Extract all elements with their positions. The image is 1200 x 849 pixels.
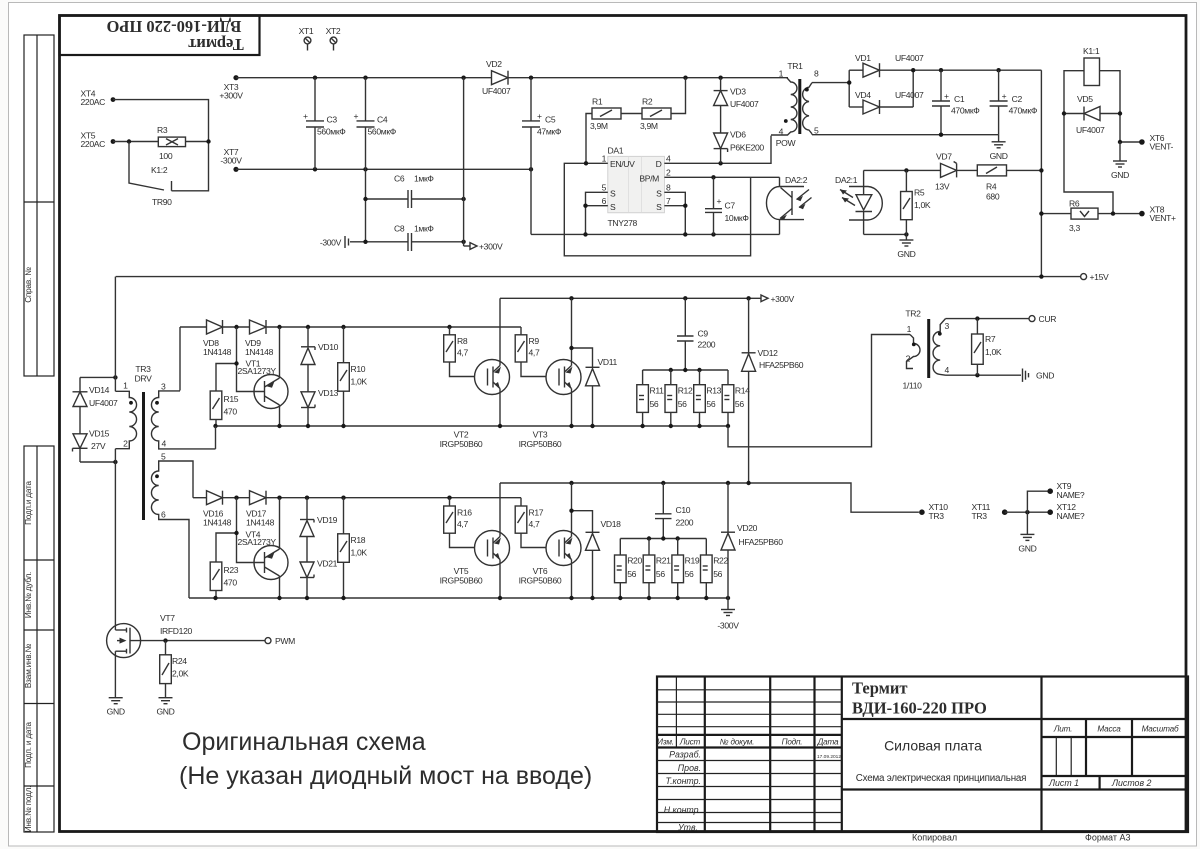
svg-text:470мкФ: 470мкФ: [951, 106, 980, 116]
resistor R8: [444, 327, 475, 377]
terminal XT9: [1027, 481, 1085, 512]
svg-text:Лит.: Лит.: [1053, 725, 1072, 734]
svg-text:R11: R11: [650, 386, 665, 396]
wire +300V power rail: [500, 294, 794, 304]
resistor R7: [972, 319, 1002, 376]
wire EN/UV net: [564, 163, 750, 256]
terminal XT7: [220, 147, 242, 172]
left table thin rows above header: [657, 689, 842, 691]
svg-text:220AC: 220AC: [81, 139, 106, 149]
resistor R14: [722, 370, 750, 426]
svg-text:ВДИ-160-220 ПРО: ВДИ-160-220 ПРО: [852, 699, 987, 718]
wire mid rail lower: [500, 483, 919, 512]
svg-text:P6KE200: P6KE200: [730, 143, 764, 153]
svg-text:560мкФ: 560мкФ: [317, 127, 346, 137]
diode VD9: [245, 320, 274, 357]
svg-text:UF4007: UF4007: [482, 86, 511, 96]
svg-text:27V: 27V: [91, 441, 106, 451]
wire snubber top bus lower: [620, 538, 706, 540]
wire R1-R2 link: [621, 113, 642, 115]
zener VD15 27V: [73, 429, 110, 463]
svg-text:1,0K: 1,0K: [985, 347, 1002, 357]
svg-text:Силовая плата: Силовая плата: [884, 738, 982, 754]
svg-text:Утв.: Утв.: [677, 823, 698, 833]
svg-text:Подп. и дата: Подп. и дата: [24, 721, 33, 767]
svg-text:C2: C2: [1012, 94, 1023, 104]
svg-text:Подп.и дата: Подп.и дата: [24, 480, 33, 524]
svg-text:+: +: [537, 111, 542, 121]
ground under R24: [156, 698, 174, 717]
diode VD12: [742, 298, 804, 483]
title block: [657, 677, 1188, 843]
svg-text:Инв.№ подл.: Инв.№ подл.: [24, 786, 33, 833]
capacitor C3: [303, 78, 346, 170]
svg-text:6: 6: [161, 510, 166, 520]
zener VD7 13V: [935, 152, 977, 192]
svg-text:Оригинальная схема: Оригинальная схема: [182, 728, 426, 756]
transistor VT1 2SA1273Y: [238, 327, 289, 426]
svg-text:3: 3: [945, 321, 950, 331]
middle panel: [842, 718, 1188, 720]
terminal XT3: [219, 75, 243, 100]
svg-text:DA1: DA1: [608, 146, 624, 156]
svg-text:2: 2: [666, 168, 671, 178]
IC DA1 TNY278: [602, 146, 671, 229]
svg-text:Разраб.: Разраб.: [669, 750, 701, 760]
svg-text:UF4007: UF4007: [895, 90, 924, 100]
wire -300V rail: [236, 168, 531, 170]
ground under VT7: [107, 698, 125, 717]
svg-text:EN/UV: EN/UV: [610, 159, 635, 169]
svg-text:VT6: VT6: [533, 566, 548, 576]
node dots lower bus: [498, 596, 502, 600]
svg-text:1: 1: [907, 324, 912, 334]
IGBT VT2: [440, 298, 510, 449]
svg-text:XT2: XT2: [326, 26, 341, 36]
optocoupler DA2:2: [766, 175, 811, 234]
svg-text:Н.контр.: Н.контр.: [664, 805, 701, 815]
svg-text:CUR: CUR: [1039, 314, 1057, 324]
svg-text:4: 4: [945, 365, 950, 375]
left table verticals: [704, 677, 706, 833]
svg-text:R17: R17: [529, 508, 544, 518]
svg-text:1мкФ: 1мкФ: [414, 174, 434, 184]
wire CUR line: [946, 318, 1030, 320]
svg-text:1N4148: 1N4148: [203, 518, 232, 528]
transformer TR2: [902, 309, 949, 391]
svg-text:8: 8: [666, 183, 671, 193]
wire upper emitter bus: [216, 425, 729, 427]
wire DA2:1 top to VD7 line: [864, 169, 941, 171]
svg-text:4,7: 4,7: [529, 348, 540, 358]
svg-text:S: S: [610, 189, 616, 199]
right panel: [1085, 719, 1087, 776]
svg-text:VD20: VD20: [737, 523, 758, 533]
svg-text:4: 4: [162, 439, 167, 449]
svg-text:+15V: +15V: [1090, 272, 1110, 282]
resistor R11: [637, 370, 664, 426]
svg-text:8: 8: [814, 69, 819, 79]
svg-text:C3: C3: [327, 115, 338, 125]
svg-text:R18: R18: [351, 535, 366, 545]
diode VD20: [721, 483, 783, 598]
terminal XT5: [81, 131, 116, 150]
terminal XT10: [919, 502, 948, 521]
svg-text:TR90: TR90: [152, 197, 172, 207]
svg-text:C8: C8: [394, 224, 405, 234]
svg-text:PWM: PWM: [275, 636, 295, 646]
svg-text:6: 6: [602, 196, 607, 206]
capacitor C9: [677, 298, 716, 370]
svg-text:C6: C6: [394, 174, 405, 184]
svg-text:R15: R15: [224, 394, 239, 404]
svg-text:+: +: [717, 196, 722, 206]
svg-text:R14: R14: [735, 386, 750, 396]
svg-text:VENT-: VENT-: [1150, 142, 1174, 152]
wire +15 feed down left upper: [114, 277, 116, 392]
terminal XT8: [1139, 205, 1176, 224]
svg-text:HFA25PB60: HFA25PB60: [739, 537, 784, 547]
svg-text:1N4148: 1N4148: [203, 347, 232, 357]
ground under XT6 branch: [1111, 142, 1129, 180]
terminal XT1: [299, 26, 314, 51]
svg-text:UF4007: UF4007: [1076, 125, 1105, 135]
svg-text:56: 56: [650, 399, 659, 409]
node R3/K1 junction: [206, 139, 210, 143]
capacitor C6: [363, 174, 466, 209]
diode VD5: [1062, 94, 1122, 135]
node dots on rails: [313, 76, 317, 80]
wire DA2:1 bottom bus: [864, 233, 907, 235]
left margin strip lower: [24, 446, 54, 832]
rotated repeat title box top-left: [60, 16, 260, 56]
transformer TR1: [771, 61, 819, 148]
svg-text:VT5: VT5: [454, 566, 469, 576]
svg-text:GND: GND: [990, 151, 1008, 161]
svg-text:Копировал: Копировал: [912, 833, 957, 843]
wire XT11 to gnd node: [1005, 511, 1050, 513]
svg-text:470мкФ: 470мкФ: [1009, 106, 1038, 116]
svg-text:R23: R23: [224, 565, 239, 575]
wire S pins left: [586, 192, 608, 234]
svg-text:470: 470: [224, 407, 238, 417]
svg-text:D: D: [656, 159, 662, 169]
svg-text:VD3: VD3: [730, 87, 746, 97]
svg-text:C4: C4: [377, 115, 388, 125]
svg-text:Лист 1: Лист 1: [1048, 778, 1079, 788]
wire PWM: [163, 636, 295, 646]
IGBT VT6: [519, 483, 581, 598]
svg-text:2: 2: [123, 439, 128, 449]
wire BP/M to C7 and opto: [664, 176, 779, 178]
svg-text:3,3: 3,3: [1069, 223, 1080, 233]
svg-text:VD19: VD19: [317, 515, 338, 525]
resistor R19: [672, 539, 700, 599]
diode VD6 P6KE200: [714, 130, 765, 164]
svg-text:56: 56: [713, 569, 722, 579]
svg-text:VD4: VD4: [855, 90, 871, 100]
svg-text:3,9M: 3,9M: [640, 121, 658, 131]
resistor R6: [1039, 199, 1142, 234]
resistor R18: [338, 498, 368, 598]
svg-text:HFA25PB60: HFA25PB60: [759, 360, 804, 370]
svg-text:2,0K: 2,0K: [172, 669, 189, 679]
svg-text:R9: R9: [529, 336, 540, 346]
svg-text:S: S: [610, 202, 616, 212]
ground -300V under bus: [717, 598, 739, 631]
svg-text:1мкФ: 1мкФ: [414, 224, 434, 234]
svg-text:+: +: [944, 91, 949, 101]
svg-text:56: 56: [656, 569, 665, 579]
diode VD16: [203, 491, 232, 528]
svg-text:Пров.: Пров.: [678, 763, 701, 773]
left margin strip upper: [24, 35, 54, 376]
capacitor C1: [932, 70, 980, 137]
svg-text:VD13: VD13: [318, 388, 339, 398]
svg-text:IRGP50B60: IRGP50B60: [519, 439, 562, 449]
zener VD13: [301, 388, 339, 426]
resistor R3: [157, 125, 186, 161]
svg-text:№ докум.: № докум.: [720, 738, 754, 747]
svg-text:5: 5: [602, 183, 607, 193]
terminal XT6: [1118, 133, 1174, 152]
svg-text:+: +: [303, 111, 308, 121]
svg-text:TR3: TR3: [929, 511, 945, 521]
svg-text:R20: R20: [627, 556, 642, 566]
svg-text:VD15: VD15: [89, 429, 110, 439]
resistor R20: [615, 539, 643, 599]
wire gate drive lower net: [193, 497, 207, 499]
svg-text:56: 56: [685, 569, 694, 579]
svg-text:1: 1: [602, 154, 607, 164]
svg-text:R22: R22: [713, 556, 728, 566]
svg-text:VT2: VT2: [454, 430, 469, 440]
svg-text:VD11: VD11: [598, 357, 618, 367]
svg-text:VD5: VD5: [1077, 94, 1093, 104]
transformer TR3: [115, 364, 215, 598]
svg-text:R2: R2: [642, 97, 653, 107]
resistor R5: [901, 170, 931, 234]
wire TR2 pin4 line: [946, 374, 1022, 376]
svg-text:R21: R21: [656, 556, 671, 566]
svg-text:3,9M: 3,9M: [590, 121, 608, 131]
wire TR1 pin5 rail: [811, 133, 813, 136]
diode VD3: [714, 78, 759, 133]
svg-text:+: +: [354, 111, 359, 121]
svg-text:4,7: 4,7: [529, 519, 540, 529]
svg-text:4,7: 4,7: [457, 348, 468, 358]
wire TR3 pin2 down to VT7: [114, 449, 116, 630]
svg-text:VD10: VD10: [318, 342, 339, 352]
svg-text:+300V: +300V: [479, 242, 503, 252]
svg-text:100: 100: [159, 151, 173, 161]
wire VD14 top link: [80, 376, 115, 378]
svg-text:TR3: TR3: [972, 511, 988, 521]
IGBT VT5: [440, 483, 510, 598]
svg-text:R19: R19: [685, 556, 700, 566]
svg-text:Термит: Термит: [188, 35, 243, 54]
capacitor C4: [354, 78, 397, 242]
svg-text:VT7: VT7: [160, 613, 175, 623]
terminal XT12: [1047, 502, 1085, 521]
diode VD1: [849, 53, 924, 77]
svg-text:VENT+: VENT+: [1150, 213, 1177, 223]
resistor R16: [444, 498, 475, 548]
wire gate drive upper net: [179, 327, 181, 391]
resistor R4: [977, 165, 1043, 202]
svg-text:GND: GND: [1111, 170, 1129, 180]
svg-text:Лист: Лист: [679, 738, 701, 747]
svg-text:3: 3: [161, 382, 166, 392]
svg-text:Дата: Дата: [817, 738, 839, 747]
wire mid node to TR2: [728, 335, 910, 447]
capacitor C10: [655, 483, 694, 539]
resistor R17: [515, 498, 546, 548]
resistor R23: [210, 562, 239, 598]
svg-text:R8: R8: [457, 336, 468, 346]
svg-text:Масса: Масса: [1097, 725, 1121, 734]
resistor R2: [640, 97, 671, 132]
svg-text:56: 56: [706, 399, 715, 409]
svg-text:-300V: -300V: [717, 621, 739, 631]
svg-text:1/110: 1/110: [902, 381, 922, 391]
wire S pins right: [664, 192, 685, 234]
wire VD15 bottom link: [80, 461, 115, 463]
resistor R21: [643, 539, 671, 599]
svg-text:Схема электрическая принципиал: Схема электрическая принципиальная: [856, 773, 1027, 784]
wire VT4 base path: [237, 498, 265, 563]
svg-text:560мкФ: 560мкФ: [368, 127, 397, 137]
wire +15V rail: [116, 272, 1109, 282]
svg-text:56: 56: [678, 399, 687, 409]
terminal XT4: [81, 89, 116, 108]
svg-text:C9: C9: [698, 329, 709, 339]
svg-text:-300V: -300V: [220, 156, 242, 166]
svg-text:R24: R24: [172, 656, 187, 666]
wire pin4 riser: [215, 426, 217, 449]
svg-text:UF4007: UF4007: [730, 99, 759, 109]
wire R3 right: [186, 141, 209, 143]
svg-text:R16: R16: [457, 508, 472, 518]
svg-text:VD6: VD6: [730, 130, 746, 140]
svg-text:S: S: [656, 189, 662, 199]
svg-text:VD1: VD1: [855, 53, 871, 63]
svg-text:1,0K: 1,0K: [351, 548, 368, 558]
svg-text:Формат А3: Формат А3: [1085, 833, 1130, 843]
svg-text:5: 5: [161, 452, 166, 462]
svg-text:1: 1: [779, 69, 784, 79]
ground under R5: [897, 234, 915, 259]
capacitor C5: [522, 78, 562, 235]
svg-text:680: 680: [986, 192, 1000, 202]
svg-text:GND: GND: [1018, 544, 1036, 554]
svg-text:VD12: VD12: [758, 348, 779, 358]
mosfet VT7 IRFD120: [107, 613, 193, 698]
terminal XT11: [972, 502, 1008, 521]
resistor R10: [338, 327, 368, 426]
wire R1 left to EN: [586, 114, 592, 164]
svg-text:TR1: TR1: [787, 61, 803, 71]
wire snubber top bus upper: [643, 369, 728, 371]
resistor R15: [210, 391, 239, 426]
svg-text:C7: C7: [725, 201, 736, 211]
svg-text:S: S: [656, 202, 662, 212]
resistor R9: [515, 327, 546, 377]
svg-text:GND: GND: [156, 707, 174, 717]
svg-text:1: 1: [123, 381, 128, 391]
svg-text:Листов 2: Листов 2: [1111, 778, 1151, 788]
svg-text:C5: C5: [545, 115, 556, 125]
node dots upper bus right: [498, 424, 502, 428]
svg-text:Инв.№ дубл.: Инв.№ дубл.: [24, 572, 33, 618]
svg-text:-300V: -300V: [320, 238, 342, 248]
diode VD8: [203, 320, 232, 357]
svg-text:4: 4: [666, 154, 671, 164]
svg-text:56: 56: [627, 569, 636, 579]
svg-text:IRGP50B60: IRGP50B60: [440, 439, 483, 449]
svg-text:Масштаб: Масштаб: [1142, 725, 1179, 734]
ground under C2: [990, 135, 1008, 161]
diode VD14: [73, 377, 119, 433]
wire TR1 pin8 to rectifier: [812, 82, 849, 84]
diode VD17: [246, 491, 275, 528]
optocoupler DA2:1: [835, 170, 882, 234]
svg-text:IRGP50B60: IRGP50B60: [440, 576, 483, 586]
svg-text:2200: 2200: [676, 518, 694, 528]
svg-text:ВДИ-160-220 ПРО: ВДИ-160-220 ПРО: [106, 17, 241, 36]
capacitor C2: [990, 70, 1038, 135]
red annotation: [179, 728, 592, 790]
svg-text:C10: C10: [676, 505, 691, 515]
svg-text:GND: GND: [1036, 371, 1054, 381]
wire XT5 to R3: [113, 141, 158, 143]
svg-text:VD14: VD14: [89, 385, 110, 395]
resistor R24: [160, 641, 189, 698]
zener pair VD10: [301, 327, 339, 392]
diode VD2: [482, 59, 511, 96]
rows below header: [657, 760, 842, 762]
svg-text:470: 470: [224, 578, 238, 588]
svg-text:17.09.2012: 17.09.2012: [817, 754, 841, 760]
svg-text:2200: 2200: [698, 340, 716, 350]
svg-text:TNY278: TNY278: [608, 218, 638, 228]
svg-text:K1:1: K1:1: [1083, 46, 1100, 56]
svg-text:Справ. №: Справ. №: [24, 267, 33, 303]
svg-text:VD21: VD21: [317, 559, 338, 569]
svg-text:R4: R4: [986, 182, 997, 192]
ground under XT11 node: [1018, 512, 1036, 553]
svg-text:+: +: [1002, 91, 1007, 101]
diode VD4: [849, 70, 924, 114]
diode VD11: [569, 346, 617, 426]
svg-text:Термит: Термит: [852, 679, 907, 698]
capacitor C7: [705, 177, 749, 234]
svg-text:R7: R7: [985, 334, 996, 344]
svg-text:VD7: VD7: [936, 152, 952, 162]
IGBT VT3: [519, 298, 581, 449]
wire VT1 base path: [237, 327, 265, 392]
ground sideways TR2: [1023, 369, 1055, 382]
svg-text:VT3: VT3: [533, 430, 548, 440]
svg-text:1,0K: 1,0K: [914, 200, 931, 210]
zener VD21: [300, 559, 338, 599]
svg-text:UF4007: UF4007: [89, 398, 118, 408]
svg-text:1,0K: 1,0K: [351, 377, 368, 387]
resistor R1: [590, 97, 621, 132]
svg-text:10мкФ: 10мкФ: [725, 213, 750, 223]
terminal XT2: [326, 26, 341, 51]
svg-text:DA2:1: DA2:1: [835, 175, 858, 185]
